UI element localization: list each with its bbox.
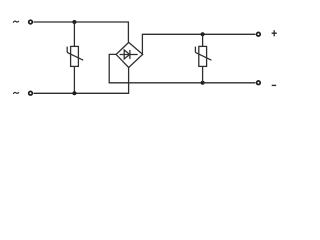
wire: bridge minus output stub, down and right along minus rail (109, 54, 255, 82)
junction dot: left varistor on top rail (72, 20, 76, 24)
junction dot: right varistor on + rail (201, 32, 205, 36)
label + (positive DC output) (272, 30, 277, 36)
wire: right varistor top lead (202, 34, 204, 46)
varistor RU1 (left, across AC input) (67, 46, 83, 66)
wire: left varistor top lead (73, 22, 75, 46)
wire: bottom AC rail from X2 to bridge bottom vertex (34, 68, 129, 94)
diode inside bridge: cathode bar (129, 50, 131, 59)
junction dot: left varistor on bottom rail (72, 91, 76, 95)
terminal X3 (+ DC output) (257, 32, 261, 36)
label minus (negative DC output) (272, 84, 277, 86)
terminal X1 (top AC input) (29, 20, 33, 24)
junction dot: right varistor on minus rail (201, 81, 205, 85)
varistor RU2 (right, across DC output) (195, 46, 211, 66)
label ~ (top AC input) (13, 21, 19, 23)
rectifier bridge V1 (diamond outline) (116, 42, 143, 67)
label ~ (bottom AC input) (13, 92, 19, 94)
wire: right varistor bottom lead (202, 66, 204, 82)
terminal X2 (bottom AC input) (29, 91, 33, 95)
terminal X4 (minus DC output) (257, 81, 261, 85)
wire: left varistor bottom lead (73, 66, 75, 93)
diode inside bridge: triangle (anode) (124, 50, 130, 59)
diode inside bridge: axis line (120, 54, 138, 56)
wire: bridge plus output up and right along + rail (142, 34, 255, 54)
wire: top AC rail from X1 to bridge top vertex (34, 22, 129, 42)
